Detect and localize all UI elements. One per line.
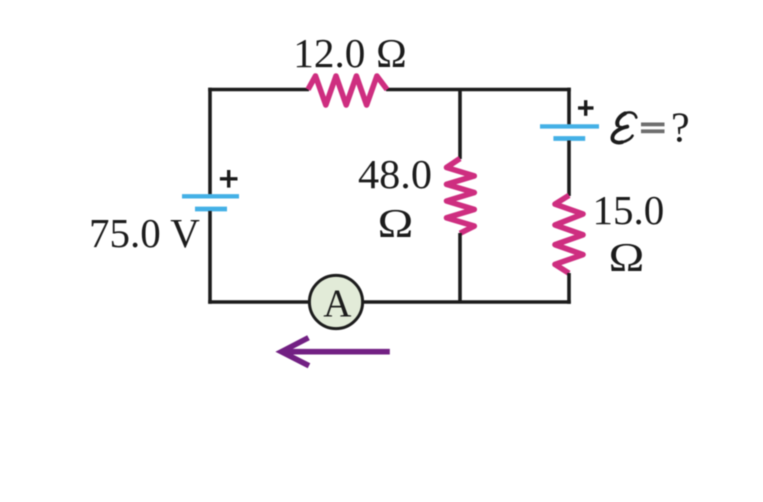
resistor R3 15.0 ohm zigzag: [555, 195, 583, 273]
wire right rail mid segment: [567, 141, 571, 197]
svg-text:12.0 Ω: 12.0 Ω: [293, 30, 407, 76]
svg-text:?: ?: [671, 106, 690, 152]
wire bottom rail: [208, 300, 571, 304]
resistor R2 48.0 ohm zigzag: [447, 159, 475, 234]
battery B2 (emf) long plate: [540, 124, 599, 128]
label script-E emf symbol: [612, 112, 636, 142]
wire top rail left segment: [208, 88, 309, 92]
wire right rail bottom segment: [567, 273, 571, 304]
label equals sign: [641, 123, 665, 134]
wire top rail right segment: [386, 88, 571, 92]
svg-text:Ω: Ω: [377, 200, 414, 246]
battery B2 plus sign: [578, 100, 594, 116]
svg-text:15.0: 15.0: [593, 187, 665, 233]
battery B1 plus sign: [220, 170, 238, 188]
svg-text:48.0: 48.0: [358, 151, 432, 197]
wire middle rail upper segment: [458, 90, 462, 160]
svg-text:A: A: [323, 282, 351, 325]
svg-text:75.0 V: 75.0 V: [89, 210, 200, 256]
wire right rail top segment: [567, 88, 571, 125]
battery B2 short plate: [553, 136, 585, 141]
battery B1 short plate: [195, 207, 227, 212]
ammeter A circle: [309, 275, 362, 328]
wire left rail lower segment: [208, 211, 212, 304]
battery B1 long plate: [182, 194, 239, 198]
svg-text:Ω: Ω: [608, 234, 645, 280]
wire middle rail lower segment: [458, 233, 462, 302]
resistor R1 12.0 ohm zigzag: [308, 76, 387, 105]
wire left rail upper segment: [208, 88, 212, 195]
current direction arrow: [282, 338, 390, 366]
